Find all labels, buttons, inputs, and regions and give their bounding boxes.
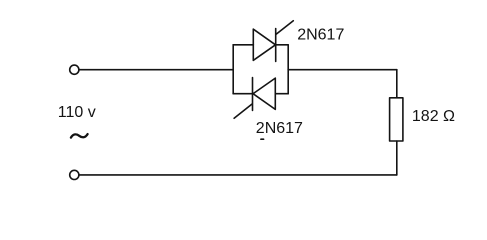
svg-text:110 v: 110 v (58, 104, 96, 121)
wire top-left horizontal (79, 69, 233, 71)
wire bottom branch right segment (275, 93, 288, 95)
AC sine symbol (71, 134, 88, 138)
terminal T2 (bottom left) (70, 170, 79, 179)
resistor R1 body (390, 98, 403, 141)
svg-text:2N617: 2N617 (256, 120, 303, 137)
thyristor Q1 cathode bar (275, 29, 277, 62)
thyristor Q1 triangle (2N617 top) (253, 29, 275, 60)
wire left vertical of SCR pair (232, 45, 234, 94)
svg-text:2N617: 2N617 (297, 27, 344, 44)
thyristor Q2 cathode bar (252, 78, 254, 111)
wire below resistor (396, 141, 398, 175)
thyristor Q2 triangle (2N617 bottom) (253, 78, 275, 109)
thyristor Q1 gate lead (276, 21, 294, 35)
wire bottom branch left segment (233, 93, 252, 95)
wire top-right horizontal (288, 69, 397, 71)
wire top branch right segment (276, 44, 289, 46)
wire right vertical of SCR pair (287, 45, 289, 94)
wire top branch left segment (233, 44, 253, 46)
wire right vertical to resistor (396, 70, 398, 98)
thyristor Q2 gate lead (234, 104, 252, 118)
terminal T1 (top left) (70, 65, 79, 74)
stray tick mark below bottom label (261, 138, 264, 140)
svg-text:182 Ω: 182 Ω (412, 108, 455, 125)
wire bottom horizontal (79, 174, 397, 176)
